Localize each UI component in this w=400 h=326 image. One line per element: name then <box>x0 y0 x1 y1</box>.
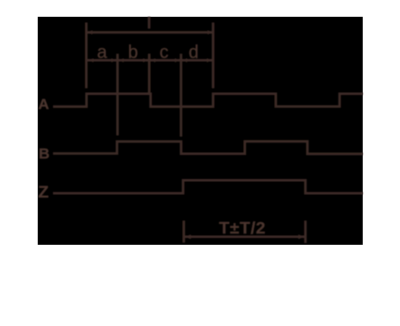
dimension line T±T/2 (bottom) <box>184 236 306 239</box>
svg-text:T±T/2: T±T/2 <box>219 219 266 238</box>
arrowhead c right <box>175 58 180 62</box>
arrowhead d right <box>207 58 212 62</box>
svg-text:B: B <box>39 146 50 163</box>
arrowhead bottom left <box>185 235 191 240</box>
center tick (top) <box>148 17 151 29</box>
arrowhead b left <box>119 58 124 62</box>
bottom dimension tick left x=183.8 <box>183 221 186 243</box>
svg-text:A: A <box>38 96 49 113</box>
black panel background <box>38 17 363 245</box>
arrowhead a left <box>89 58 94 62</box>
tick t2 x=149.2 <box>148 54 151 95</box>
waveform A <box>53 94 363 107</box>
bottom dimension tick right x=305.4 <box>304 221 307 243</box>
dimension line a/b/c/d <box>87 59 213 62</box>
arrowhead d left <box>182 58 187 62</box>
svg-text:c: c <box>160 42 169 62</box>
svg-text:Z: Z <box>38 183 48 202</box>
svg-text:a: a <box>97 42 108 62</box>
tick t3 x=181 <box>180 54 183 137</box>
arrowhead T right <box>208 30 213 34</box>
waveform Z <box>53 180 363 193</box>
svg-text:b: b <box>128 42 138 62</box>
arrowhead bottom right <box>298 235 304 240</box>
arrowhead T left <box>87 30 92 34</box>
arrowhead a right <box>111 58 116 62</box>
arrowhead c left <box>151 58 156 62</box>
extension line left x=86.3 <box>85 23 88 89</box>
extension line right x=213.1 <box>212 23 215 89</box>
arrowhead b right <box>143 58 148 62</box>
tick t1 x=117.5 <box>116 54 119 136</box>
dimension line T (top) <box>87 31 213 34</box>
waveform B <box>53 141 363 154</box>
svg-text:d: d <box>189 42 199 62</box>
